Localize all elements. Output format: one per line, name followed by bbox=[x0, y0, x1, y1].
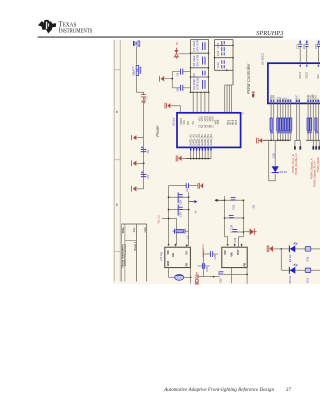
capacitor C11 bbox=[216, 51, 224, 56]
svg-text:Title: Title bbox=[121, 227, 125, 234]
svg-text:C21: C21 bbox=[205, 266, 209, 271]
svg-text:SPRUHP3: SPRUHP3 bbox=[256, 30, 283, 37]
title block col line 3 bbox=[146, 224, 148, 282]
svg-text:VIN: VIN bbox=[230, 252, 233, 256]
LED row 2 vertical link bbox=[280, 249, 282, 270]
diode D3 (red) bbox=[243, 229, 256, 235]
ladder rung 3 bbox=[191, 67, 209, 69]
zener D1 bbox=[174, 48, 178, 59]
zener loop wire left bbox=[269, 140, 276, 181]
frame zone tick 1 bbox=[114, 69, 120, 71]
capacitor C21 bbox=[198, 263, 210, 272]
wire U5 out down bbox=[246, 268, 248, 284]
resistor R11 bbox=[305, 247, 311, 262]
power flag PF4 bbox=[159, 76, 164, 82]
svg-text:BT4: BT4 bbox=[234, 119, 238, 124]
svg-text:C11: C11 bbox=[216, 51, 220, 56]
polarized capacitor C19 bbox=[175, 275, 191, 281]
power flag PF5 bbox=[252, 91, 255, 97]
wire 3V3 down bbox=[202, 250, 204, 277]
LED row 1 wire bbox=[273, 248, 320, 250]
junction dot bbox=[213, 276, 215, 278]
U2 bottom pin tips bbox=[190, 148, 212, 151]
svg-text:12500 TI Boulevard: 12500 TI Boulevard bbox=[124, 244, 127, 266]
title block left line bbox=[121, 224, 123, 282]
junction dot C19 bbox=[190, 276, 192, 278]
wire main vertical rail bbox=[143, 103, 145, 189]
polarized capacitor C22 (red) bbox=[195, 272, 199, 285]
U2 top pin labels bbox=[179, 116, 238, 128]
capacitor C8 bbox=[192, 55, 205, 67]
junction dot bbox=[246, 274, 248, 276]
svg-text:VDD2: VDD2 bbox=[305, 72, 308, 79]
capacitor C10 bbox=[216, 41, 224, 51]
connector J1 bbox=[133, 41, 140, 46]
title block divider bbox=[125, 239, 136, 241]
svg-text:C26: C26 bbox=[233, 237, 237, 242]
U1 bottom pin labels group C bbox=[306, 94, 320, 102]
capacitor C24 bbox=[224, 215, 245, 229]
TI logo bug bbox=[38, 20, 56, 34]
resistor value labels D bbox=[315, 131, 318, 134]
svg-text:C3: C3 bbox=[146, 175, 150, 179]
IC U5 box bbox=[222, 247, 247, 267]
U4 inside pin text bbox=[167, 250, 189, 266]
ladder2 rung bottom bbox=[215, 69, 234, 71]
capacitor C7 bbox=[192, 40, 205, 52]
schematic page background bbox=[113, 39, 320, 284]
U4 top pin stubs bbox=[175, 244, 188, 247]
cap ladder 2 left rail bbox=[214, 40, 216, 71]
header rule bbox=[38, 36, 283, 38]
zener D2 bbox=[272, 166, 288, 174]
ladder2 rung 3 bbox=[215, 57, 234, 59]
svg-text:SW: SW bbox=[224, 250, 227, 255]
ladder rung 4 bbox=[191, 76, 209, 78]
right bus stubs bbox=[313, 140, 319, 149]
capacitor C18b bbox=[168, 207, 190, 217]
resistor R10 bbox=[172, 229, 189, 239]
capacitor C14 bbox=[302, 41, 309, 49]
resistor value labels C bbox=[307, 131, 312, 134]
resistor R9 bbox=[315, 118, 317, 130]
ladder2 rung top bbox=[215, 39, 234, 41]
ground bus under U2 bbox=[186, 158, 211, 160]
svg-text:Vin_12: Vin_12 bbox=[157, 215, 161, 224]
U1 bottom pin labels group A bbox=[269, 95, 293, 102]
ladder rung 2 bbox=[191, 52, 209, 54]
wire C15 to U1 bbox=[317, 47, 319, 64]
capacitor C2 bbox=[141, 147, 150, 154]
wire flag to caps bbox=[164, 72, 172, 79]
svg-text:25V X7R: 25V X7R bbox=[196, 40, 200, 52]
wires U1 bottom group A bbox=[271, 103, 291, 140]
U5 top pin stubs bbox=[235, 244, 242, 247]
svg-text:VO: VO bbox=[186, 251, 189, 255]
capacitor C5 bbox=[172, 69, 190, 77]
svg-text:VIN: VIN bbox=[167, 250, 170, 254]
resistor R12 bbox=[305, 268, 311, 283]
bus junctions bbox=[190, 158, 209, 160]
power flag PF3 bbox=[132, 186, 144, 192]
bus junction dots bbox=[270, 139, 289, 141]
wire C14 to U1 bbox=[306, 47, 308, 64]
wire J1 to F1 bbox=[136, 46, 138, 64]
ground wire bottom bbox=[197, 276, 220, 278]
power flag PF10 bbox=[267, 245, 273, 252]
capacitor C20 bbox=[203, 251, 217, 259]
junction ladder2 bbox=[226, 69, 228, 71]
power flag PF1 bbox=[132, 135, 144, 140]
junction dot LED bbox=[280, 248, 282, 250]
capacitor C6 bbox=[172, 85, 190, 92]
svg-text:C12: C12 bbox=[216, 62, 220, 68]
capacitor C9 bbox=[192, 71, 205, 90]
svg-text:C10: C10 bbox=[216, 43, 220, 49]
LED D4 bbox=[288, 242, 297, 262]
svg-text:VC: VC bbox=[191, 121, 195, 125]
power flag PF6 bbox=[257, 138, 263, 144]
svg-text:PWM_OutC: PWM_OutC bbox=[316, 157, 320, 172]
svg-text:EN: EN bbox=[186, 121, 190, 125]
wires ladder2 to U2 top bbox=[225, 85, 233, 113]
net port arrow left bbox=[214, 199, 224, 202]
frame zone letter B bbox=[116, 111, 118, 113]
IC U1 PWM controller box bbox=[268, 63, 320, 103]
svg-text:C2: C2 bbox=[146, 149, 150, 153]
capacitor C1 value text bbox=[143, 97, 145, 103]
svg-text:GND: GND bbox=[167, 261, 170, 267]
svg-text:BST: BST bbox=[237, 249, 240, 254]
svg-text:VCC1: VCC1 bbox=[299, 72, 302, 79]
svg-text:VIN: VIN bbox=[182, 120, 186, 124]
svg-text:Size: Size bbox=[133, 227, 136, 232]
frame zone tick 2 bbox=[114, 159, 120, 161]
resistor value labels A bbox=[270, 131, 273, 134]
svg-text:VBATT: VBATT bbox=[131, 66, 135, 75]
frame zone tick 3 bbox=[114, 250, 120, 252]
svg-text:D2 5V: D2 5V bbox=[280, 170, 288, 174]
svg-text:C20: C20 bbox=[213, 254, 217, 259]
capacitor C12 bbox=[216, 60, 224, 68]
capacitor C17 bbox=[185, 183, 198, 192]
capacitor C25 under U5 bbox=[218, 272, 247, 283]
wire flag to U2 bbox=[171, 106, 181, 113]
capacitor C15 bbox=[314, 41, 320, 49]
junction ladder2b bbox=[221, 45, 223, 47]
wires ladder1 to U2 top bbox=[193, 92, 209, 113]
bus wire right group bbox=[306, 139, 320, 141]
svg-text:Date: Date bbox=[144, 227, 147, 233]
zener loop wire right bbox=[274, 140, 276, 166]
cap ladder 1 right rail bbox=[208, 40, 210, 93]
svg-text:X7R 1210: X7R 1210 bbox=[196, 77, 200, 90]
U1 bottom pin labels group B bbox=[295, 95, 302, 102]
svg-text:U1 UCC2: U1 UCC2 bbox=[260, 53, 264, 65]
svg-text:VB2: VB2 bbox=[216, 119, 220, 124]
svg-text:FB: FB bbox=[244, 263, 247, 267]
svg-text:37: 37 bbox=[286, 387, 292, 393]
wire C13 to U1 bbox=[299, 47, 301, 64]
power flag PF8 bbox=[176, 155, 185, 161]
SCHEMATIC CONTENT bbox=[114, 40, 320, 285]
svg-text:25V X7R: 25V X7R bbox=[196, 55, 200, 67]
svg-text:C23: C23 bbox=[231, 204, 235, 209]
arrow marker bbox=[189, 200, 198, 213]
title block col line 1 bbox=[124, 224, 126, 282]
LED D5 bbox=[288, 264, 297, 284]
svg-text:R12: R12 bbox=[306, 277, 310, 282]
IC U4 regulator box bbox=[165, 247, 191, 267]
svg-text:PWM_Enable_In: PWM_Enable_In bbox=[294, 153, 298, 175]
U5 pin dots bbox=[227, 244, 243, 246]
U2 bottom pin labels bbox=[189, 134, 213, 146]
svg-text:D3: D3 bbox=[251, 205, 255, 209]
junction at rail bbox=[168, 218, 170, 220]
svg-text:R11: R11 bbox=[306, 256, 310, 261]
wire right rail U5 bbox=[239, 200, 244, 247]
wire U5 sw down bbox=[231, 268, 233, 284]
svg-text:GATE_B4: GATE_B4 bbox=[209, 134, 213, 146]
bus wire bottom of U1 bbox=[263, 139, 291, 141]
ladder junction dots bbox=[190, 45, 234, 94]
capacitor C26 bbox=[230, 229, 244, 242]
regulator loop top wire bbox=[169, 186, 186, 246]
svg-text:Power: Power bbox=[155, 125, 160, 137]
capacitor C3 bbox=[141, 172, 150, 179]
junction bbox=[171, 78, 173, 80]
LED row 2 wire bbox=[281, 269, 320, 271]
wire U4 out down bbox=[190, 268, 192, 284]
resistor network R2-R6 bbox=[277, 118, 292, 130]
title block col line 2 bbox=[135, 224, 137, 282]
U5 inside pin text bbox=[224, 249, 247, 266]
right net stub tips bbox=[312, 146, 320, 149]
wire to C6 bbox=[171, 79, 173, 88]
TI logotype bbox=[59, 20, 93, 35]
capacitor C1 (input, red) bbox=[141, 92, 149, 103]
cap ladder 1 left rail bbox=[190, 40, 192, 93]
svg-text:D4 led: D4 led bbox=[288, 254, 292, 262]
U2 bottom pin wires bbox=[191, 147, 211, 158]
frame zone letter A bbox=[116, 204, 118, 206]
svg-text:U4 reg: U4 reg bbox=[159, 252, 163, 261]
wires U1 bottom group C bbox=[308, 103, 318, 140]
IC U2 gate driver box bbox=[177, 113, 241, 148]
svg-text:C16: C16 bbox=[272, 153, 276, 158]
wire U4 to C19 bbox=[169, 268, 175, 278]
wire left rail to box bbox=[225, 237, 228, 244]
svg-text:Sheet 2: Sheet 2 bbox=[133, 241, 137, 251]
resistor value labels B bbox=[277, 131, 292, 134]
title block outer edge bbox=[121, 223, 146, 225]
capacitor streaks left loop bbox=[178, 192, 180, 215]
frame border left inner line bbox=[119, 40, 121, 282]
net stub tips bbox=[294, 146, 301, 149]
svg-text:D5 led: D5 led bbox=[288, 275, 292, 283]
svg-text:EN: EN bbox=[172, 253, 175, 257]
resistor R1 bbox=[270, 118, 272, 130]
wire zener to rail bbox=[179, 53, 191, 55]
power flag PF2 bbox=[132, 160, 144, 166]
svg-text:C25: C25 bbox=[218, 278, 222, 283]
power flag PF7 bbox=[165, 103, 170, 109]
svg-text:5V: 5V bbox=[175, 42, 179, 45]
svg-text:4: 4 bbox=[242, 111, 244, 115]
U4 pin dots bbox=[168, 244, 188, 246]
cap ladder 2 right rail bbox=[232, 40, 234, 86]
capacitor C18a bbox=[168, 195, 190, 205]
svg-text:C5: C5 bbox=[175, 72, 179, 76]
capacitor C13 bbox=[295, 41, 302, 49]
svg-text:FB: FB bbox=[186, 263, 189, 267]
resistor network R7-R8 bbox=[307, 118, 312, 130]
junction dot bbox=[143, 162, 145, 164]
wires U1 bottom group A lower bbox=[271, 130, 291, 140]
regulator right rail bbox=[188, 192, 190, 245]
power flag PF9 bbox=[198, 183, 203, 189]
svg-text:Automotive Adaptive Front-ligh: Automotive Adaptive Front-lighting Refer… bbox=[163, 386, 274, 393]
ladder rung bottom bbox=[191, 91, 209, 93]
wire F1 down bbox=[137, 76, 144, 93]
fuse F1 bbox=[131, 65, 141, 75]
wire stub sync bbox=[295, 103, 300, 148]
capacitor C23 bbox=[224, 198, 245, 210]
frame border left outer line bbox=[113, 40, 115, 282]
wire net to loop bbox=[162, 219, 177, 246]
ladder2 rung 2 bbox=[215, 44, 234, 46]
ladder rung top bbox=[191, 39, 209, 41]
svg-text:U2 drv: U2 drv bbox=[172, 117, 176, 126]
wires above U5 bbox=[224, 196, 226, 237]
U1 pin number marks bbox=[270, 65, 319, 102]
svg-text:PWM Controller: PWM Controller bbox=[246, 63, 251, 94]
